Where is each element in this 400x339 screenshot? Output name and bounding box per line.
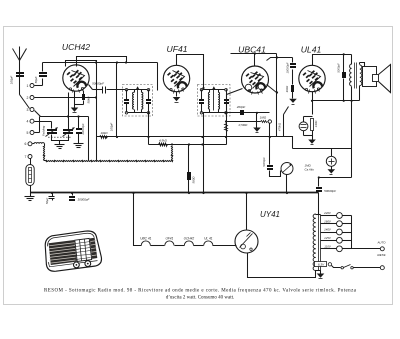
junction xyxy=(125,61,127,63)
svg-text:50000pF: 50000pF xyxy=(324,189,336,193)
wire UL41 plate top xyxy=(313,55,352,66)
wire speaker return y100.8 xyxy=(313,100,360,102)
wire drop x189 xyxy=(188,145,190,193)
svg-text:AUTO: AUTO xyxy=(377,241,387,245)
junction xyxy=(51,192,53,194)
terminal 1 xyxy=(27,84,34,88)
junction xyxy=(225,120,227,122)
capacitor 50pF xyxy=(34,72,47,83)
ground UF41 xyxy=(173,97,181,103)
junction xyxy=(95,61,97,63)
junction xyxy=(116,61,118,63)
svg-text:UF41: UF41 xyxy=(166,237,174,241)
resistor 500ohm xyxy=(187,172,195,184)
terminal 3 xyxy=(27,108,34,112)
tap 125V xyxy=(321,236,352,243)
tube UCH42 label xyxy=(62,42,90,52)
svg-text:200pF: 200pF xyxy=(236,105,246,109)
ground trimmers xyxy=(55,145,65,149)
shielded wire vertical left xyxy=(44,147,45,161)
capacitor 50000pF smoothing xyxy=(316,178,336,215)
junction xyxy=(201,136,203,138)
coil terminal 6 xyxy=(33,143,45,147)
svg-text:UCH42: UCH42 xyxy=(184,237,195,241)
junction xyxy=(276,91,278,93)
wire terminal 3 stub xyxy=(35,111,41,117)
wire UBC41 top xyxy=(254,54,256,67)
IF shield can T1 xyxy=(123,85,153,117)
ground 20000pF xyxy=(74,144,84,148)
ground UL41 cathode xyxy=(308,136,316,145)
junction xyxy=(254,52,256,54)
wire filament b xyxy=(175,245,185,247)
resistor 140ohm cathode xyxy=(311,119,319,136)
wire UF41 top cap xyxy=(177,55,204,89)
wire volume feed xyxy=(269,124,271,165)
capacitor 20000pF xyxy=(76,117,85,136)
junction xyxy=(276,56,278,58)
switch mains xyxy=(332,265,381,269)
junction xyxy=(188,143,190,145)
wire terminal 7 xyxy=(30,159,32,165)
filament UL41 xyxy=(204,237,213,246)
wire UBC41 grid xyxy=(227,89,243,145)
resistor grid leak xyxy=(225,124,228,132)
wire T1 bottom drop xyxy=(148,113,150,145)
IF shield can T2 xyxy=(198,85,231,117)
resistor 50kOhm screen xyxy=(285,85,294,99)
wire line y144.5 xyxy=(149,144,227,146)
junction xyxy=(171,143,173,145)
wire grid return y148 xyxy=(293,148,352,150)
svg-text:2: 2 xyxy=(27,96,29,100)
svg-text:UY41: UY41 xyxy=(260,210,280,219)
wire top nest A xyxy=(77,57,127,67)
wire UY41 heater xyxy=(248,253,316,278)
wire drop x117 xyxy=(110,63,117,137)
wire filament d xyxy=(213,245,237,247)
trimmer capacitor C-tune1 xyxy=(46,127,58,136)
svg-text:10000pF: 10000pF xyxy=(285,62,289,73)
wire UF41 cathode xyxy=(176,92,178,97)
junction xyxy=(188,192,190,194)
capacitor 50000pF coupling xyxy=(89,82,126,94)
capacitor 30000pF bus xyxy=(69,193,90,202)
tube UL41 label xyxy=(301,45,322,55)
resistor 4.5kOhm xyxy=(159,138,168,146)
wire coil box right xyxy=(88,117,90,161)
resistor UCH42 cathode xyxy=(75,91,91,105)
wire x277 vertical xyxy=(277,54,293,149)
ground diode load xyxy=(253,128,261,133)
terminal 2 xyxy=(27,96,34,100)
svg-text:470kΩ: 470kΩ xyxy=(277,122,281,131)
svg-text:50µF: 50µF xyxy=(45,198,49,205)
capacitor 5000pF tone xyxy=(337,55,346,101)
svg-text:220V: 220V xyxy=(323,211,332,215)
wire drop x96 xyxy=(96,63,98,161)
ground bus left xyxy=(25,193,35,201)
wire UCH42 cathode xyxy=(74,91,76,108)
junction xyxy=(67,115,69,117)
ground UCH42 xyxy=(71,108,79,113)
svg-text:UCH42: UCH42 xyxy=(62,42,90,52)
wire fuse to bus xyxy=(30,186,32,193)
caption line 2 xyxy=(166,296,234,301)
tap 140V xyxy=(321,228,352,235)
terminal 7 xyxy=(25,155,32,159)
wire stub x157 xyxy=(157,63,159,91)
wire to volume pot xyxy=(270,171,281,177)
potentiometer tone xyxy=(305,149,337,172)
junction xyxy=(77,115,79,117)
junction xyxy=(351,100,353,102)
wire y121.5 xyxy=(227,121,261,123)
svg-text:10kΩ: 10kΩ xyxy=(100,131,108,135)
svg-text:4,5kΩ: 4,5kΩ xyxy=(159,138,168,142)
tube UY41 label xyxy=(260,210,280,219)
junction xyxy=(269,136,271,138)
wire UBC41 screen xyxy=(267,58,293,61)
svg-text:0,5MΩ: 0,5MΩ xyxy=(239,123,248,127)
potentiometer volume xyxy=(281,163,293,175)
svg-text:100pF: 100pF xyxy=(10,76,14,85)
wire detector y112.8 xyxy=(227,112,270,114)
capacitor cathode bypass xyxy=(299,117,312,136)
svg-text:30000pF: 30000pF xyxy=(78,198,90,202)
bus B- heavy line xyxy=(31,192,319,194)
svg-text:UBC 41: UBC 41 xyxy=(140,237,151,241)
junction xyxy=(132,192,134,194)
svg-text:RESOM - Sottomagic Radio mod: RESOM - Sottomagic Radio mod. 98 - Ricev… xyxy=(44,289,357,294)
junction xyxy=(71,192,73,194)
tube UF41 label xyxy=(166,44,187,54)
resistor 1Mohm xyxy=(239,116,268,127)
wire UL41 cathode xyxy=(312,92,314,115)
junction xyxy=(343,100,345,102)
junction xyxy=(286,192,288,194)
gang dashed link xyxy=(48,136,71,138)
svg-text:6,3V: 6,3V xyxy=(318,263,325,267)
power transformer xyxy=(313,214,320,271)
junction xyxy=(202,192,204,194)
svg-text:d’uscita 2 watt. Consumo 40 wa: d’uscita 2 watt. Consumo 40 watt. xyxy=(166,296,234,301)
ground screen xyxy=(289,99,297,105)
label padding xyxy=(42,125,46,136)
label AUTO xyxy=(377,241,387,245)
wire filament drop xyxy=(134,193,142,246)
IF transformer T1 xyxy=(124,86,151,114)
wire filament c xyxy=(194,245,204,247)
svg-text:RETE: RETE xyxy=(377,253,386,257)
caption line 1 xyxy=(44,289,357,294)
capacitor 200pF detector xyxy=(236,105,246,115)
wire terminal 5 xyxy=(35,117,40,133)
svg-text:125V: 125V xyxy=(324,236,332,240)
speaker xyxy=(363,65,391,93)
wire avc line y137 xyxy=(97,136,277,138)
filament UF41 xyxy=(165,237,174,246)
svg-text:UL 41: UL 41 xyxy=(204,237,213,241)
wire top bus right xyxy=(231,53,277,55)
junction xyxy=(225,112,227,114)
ground tone xyxy=(328,169,336,174)
tube UF41 xyxy=(163,65,189,93)
svg-text:140Ω: 140Ω xyxy=(314,120,318,128)
terminal mains 2 xyxy=(380,266,384,270)
terminal 5 xyxy=(27,131,34,135)
trimmer capacitor C-tune2 xyxy=(63,127,75,136)
tube UY41 xyxy=(235,230,258,253)
wire UY41 anode xyxy=(246,193,248,231)
tube UCH42 xyxy=(63,65,89,93)
capacitor 100pF antenna xyxy=(10,72,25,84)
wire tap bus xyxy=(351,216,353,249)
wire tone ground xyxy=(331,167,333,170)
wire UL41 grid xyxy=(277,107,288,137)
svg-text:140V: 140V xyxy=(324,228,332,232)
svg-text:30kΩ: 30kΩ xyxy=(285,85,289,93)
svg-text:5000pF: 5000pF xyxy=(262,157,266,167)
capacitor 50uF bus xyxy=(45,193,55,205)
wire B+ vertical x351.6 xyxy=(351,101,353,178)
svg-text:50pF: 50pF xyxy=(34,76,38,83)
wire UBC41 plate xyxy=(267,85,277,93)
terminal 4 xyxy=(27,119,34,123)
wire 50pF to top xyxy=(42,63,44,72)
terminal mains 1 xyxy=(380,247,384,251)
wire terminal 4 xyxy=(35,122,52,129)
junction xyxy=(95,96,97,98)
wire secondary top xyxy=(360,63,365,67)
svg-text:UL41: UL41 xyxy=(301,45,322,55)
label RETE xyxy=(377,253,386,257)
shielded wire horizontal xyxy=(45,161,173,162)
svg-text:6: 6 xyxy=(25,142,27,146)
junction xyxy=(202,87,204,89)
node volume tap xyxy=(268,120,271,123)
ground transformer xyxy=(316,271,325,279)
capacitor 5000pF volume xyxy=(262,157,273,170)
junction xyxy=(147,136,149,138)
wire 20000pF ground xyxy=(78,134,80,144)
wire trimmer grounds xyxy=(52,135,69,145)
IF transformer T2 xyxy=(199,86,229,114)
tap 220V xyxy=(321,211,352,218)
svg-text:UF41: UF41 xyxy=(166,44,187,54)
junction xyxy=(311,100,313,102)
winding 6.3V xyxy=(315,262,332,267)
wire 50pF to terminal 1 xyxy=(35,79,43,86)
junction xyxy=(245,192,247,194)
wire T2 bottom drop x203.5 xyxy=(203,113,205,193)
antenna xyxy=(13,47,27,95)
svg-text:4: 4 xyxy=(27,120,29,124)
junction xyxy=(318,176,320,178)
terminal 6 xyxy=(25,142,32,146)
junction xyxy=(116,136,118,138)
wire antenna to terminal 3 xyxy=(20,95,30,109)
wire filament a xyxy=(151,245,165,247)
svg-text:160V: 160V xyxy=(324,219,332,223)
svg-text:500Ω: 500Ω xyxy=(191,176,195,184)
svg-text:100pF: 100pF xyxy=(110,123,114,132)
wire coil box top xyxy=(40,116,89,118)
filament UBC41 xyxy=(140,237,151,246)
wire diode load xyxy=(256,113,258,128)
filament UCH42 xyxy=(184,237,195,246)
svg-text:7: 7 xyxy=(25,155,27,159)
svg-text:5: 5 xyxy=(27,131,29,135)
tube UBC41 xyxy=(242,66,269,95)
tube UBC41 label xyxy=(238,45,266,55)
fuse resistor 1500ohm xyxy=(26,165,34,186)
wire top nest B xyxy=(66,61,97,67)
junction xyxy=(201,143,203,145)
wire terminal 2 xyxy=(35,97,97,99)
svg-text:50kΩ: 50kΩ xyxy=(87,96,91,104)
svg-text:20000pF: 20000pF xyxy=(81,123,85,135)
wire top bus y62 xyxy=(43,62,158,64)
svg-text:110V: 110V xyxy=(324,245,332,249)
junction xyxy=(225,136,227,138)
svg-text:50000pF: 50000pF xyxy=(92,82,104,86)
junction xyxy=(256,112,258,114)
wire mains top xyxy=(352,248,381,250)
svg-text:1MΩ: 1MΩ xyxy=(260,116,267,120)
output transformer T3 xyxy=(350,55,362,101)
capacitor 10000pF xyxy=(285,58,296,85)
resistor 10kOhm xyxy=(100,131,109,139)
radio cabinet xyxy=(45,231,101,271)
svg-text:Ca Alto: Ca Alto xyxy=(305,168,315,172)
wire y177.5 xyxy=(319,177,352,179)
svg-text:1: 1 xyxy=(27,84,29,88)
svg-text:3: 3 xyxy=(27,108,29,112)
shielded wire vertical right xyxy=(172,147,173,161)
wire volume to bus xyxy=(286,175,288,193)
tube UL41 xyxy=(299,65,325,93)
svg-text:5000pF: 5000pF xyxy=(337,63,341,73)
junction xyxy=(343,53,345,55)
svg-text:Padding: Padding xyxy=(42,125,46,136)
wire oscillator grid xyxy=(68,93,70,130)
tap 160V xyxy=(321,219,352,226)
border frame xyxy=(4,27,393,305)
tap 110V xyxy=(321,245,352,252)
